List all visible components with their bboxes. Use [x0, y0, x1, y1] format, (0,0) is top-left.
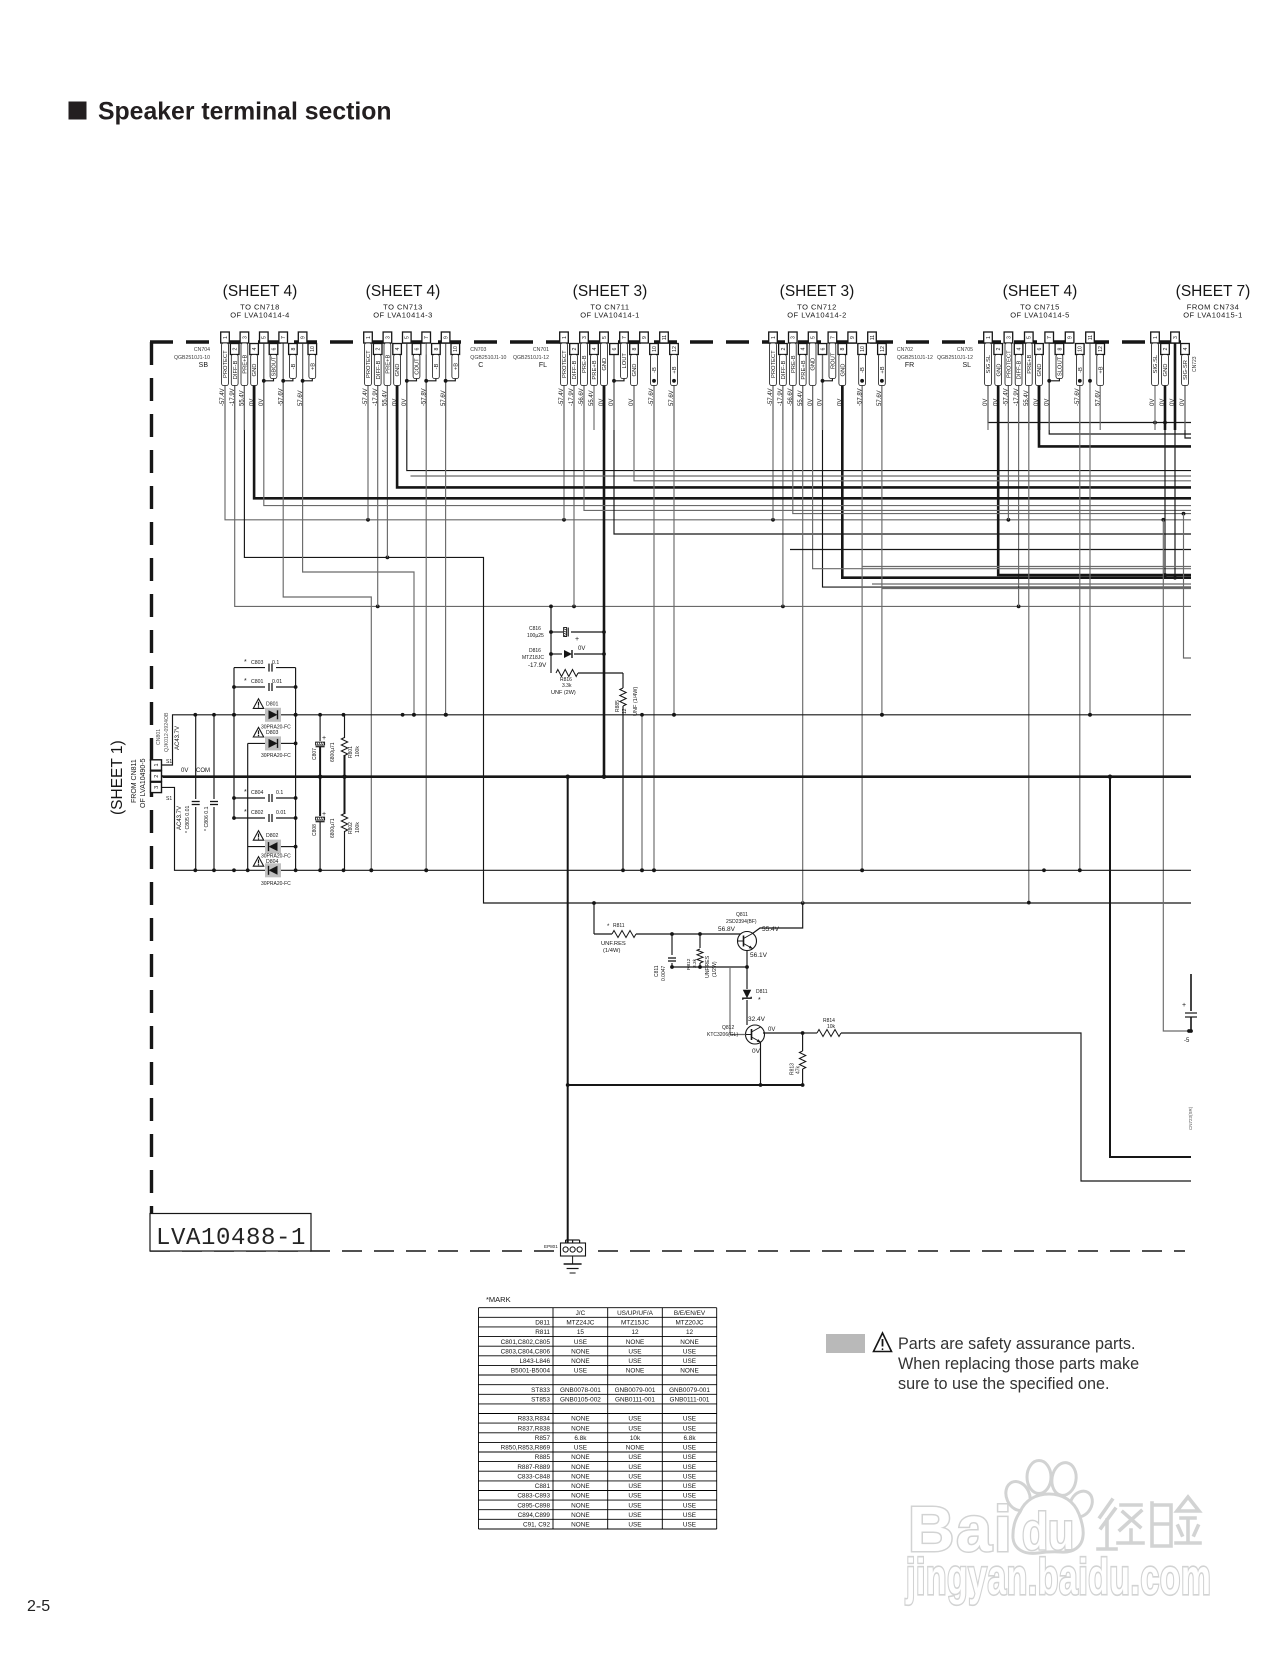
svg-text:0V: 0V	[1044, 399, 1050, 406]
svg-text:R802: R802	[348, 822, 354, 834]
svg-text:8: 8	[1057, 347, 1063, 350]
svg-text:GNB0111-001: GNB0111-001	[670, 1397, 710, 1404]
wire: PRE+B drop CN703	[386, 343, 388, 557]
svg-text:55.4V: 55.4V	[383, 390, 389, 406]
svg-text:USE: USE	[628, 1493, 641, 1500]
wire: +B net CN705	[1088, 343, 1092, 717]
capacitor C816 (100u25)	[527, 626, 604, 643]
svg-text:USE: USE	[683, 1473, 696, 1480]
svg-text:0.0047: 0.0047	[661, 965, 667, 981]
junction dots CN705 flags	[1078, 379, 1092, 383]
wire: base feed line	[594, 903, 612, 934]
wire: PROTECT drop at x=1008	[1007, 332, 1009, 520]
wire: PRE+B net CN704/CN703	[244, 343, 1191, 905]
svg-text:NONE: NONE	[571, 1454, 589, 1461]
svg-text:0V: 0V	[993, 399, 999, 406]
svg-text:SLOUT: SLOUT	[1058, 356, 1064, 376]
svg-text:OF LVA10414-1: OF LVA10414-1	[580, 311, 640, 320]
wire: DIFF-B drop at x=782	[782, 355, 784, 607]
svg-text:0V: 0V	[808, 399, 814, 406]
wire: +B net CN701	[672, 355, 676, 717]
svg-text:12: 12	[672, 346, 678, 352]
svg-text:USE: USE	[574, 1368, 587, 1375]
svg-text:LOUT: LOUT	[622, 353, 628, 369]
wire: R814 output line	[763, 1031, 817, 1035]
node CN7xx right edge label	[1188, 1106, 1193, 1130]
svg-text:NONE: NONE	[680, 1339, 698, 1346]
svg-text:R833,R834: R833,R834	[518, 1416, 551, 1423]
svg-text:FROM CN811: FROM CN811	[131, 759, 138, 803]
svg-text:1: 1	[771, 336, 777, 339]
svg-text:(SHEET 3): (SHEET 3)	[780, 283, 855, 300]
node: sheet reference header (SHEET 3) TO CN712	[780, 283, 855, 320]
svg-text:UNF.RES: UNF.RES	[601, 941, 626, 947]
svg-text:OF LVA10414-2: OF LVA10414-2	[787, 311, 847, 320]
wire: DIFF-B net bus	[235, 355, 1191, 609]
wire: right edge riser 1163	[1163, 520, 1191, 1033]
svg-text:-57.6V: -57.6V	[649, 388, 655, 406]
svg-text:8: 8	[840, 347, 846, 350]
wire: +B net CN702	[880, 355, 884, 717]
svg-text:3.3k: 3.3k	[562, 683, 572, 689]
svg-text:-17.9V: -17.9V	[569, 388, 575, 406]
svg-text:4: 4	[395, 347, 401, 350]
svg-text:-5: -5	[1184, 1038, 1190, 1044]
svg-text:0V: 0V	[578, 646, 585, 652]
svg-text:+: +	[322, 811, 326, 818]
page title	[69, 99, 392, 126]
svg-text:+: +	[575, 636, 579, 643]
capacitor C805 (0.01)	[185, 715, 200, 871]
diode D803 (30PRA20-FC)	[248, 727, 296, 759]
svg-text:1: 1	[366, 336, 372, 339]
wire: aux bus	[790, 549, 1191, 551]
svg-text:0V: 0V	[818, 399, 824, 406]
capacitor C801 (0.01)	[232, 678, 297, 691]
svg-text:*: *	[607, 924, 610, 930]
svg-text:MTZ15JC: MTZ15JC	[621, 1320, 649, 1327]
svg-text:0V: 0V	[752, 1048, 761, 1055]
svg-text:GND: GND	[996, 364, 1002, 377]
svg-text:L843-L846: L843-L846	[519, 1358, 550, 1365]
capacitor C807 (6800uF)	[312, 715, 336, 777]
wire: PROTECT drop at x=773	[772, 343, 774, 520]
svg-text:GND: GND	[252, 364, 258, 377]
wire: ROUT net CN702	[823, 343, 1192, 587]
svg-text:GNB0078-001: GNB0078-001	[560, 1387, 601, 1394]
svg-text:6: 6	[1037, 347, 1043, 350]
capacitor C802 (0.01)	[234, 809, 296, 822]
svg-text:C803,C804,C806: C803,C804,C806	[501, 1348, 551, 1355]
svg-text:(SHEET 4): (SHEET 4)	[366, 283, 441, 300]
svg-text:C816: C816	[529, 626, 541, 632]
capacitor C8xx (right edge, cut)	[1182, 974, 1197, 1044]
svg-text:6: 6	[820, 347, 826, 350]
svg-text:GNB0105-002: GNB0105-002	[560, 1397, 601, 1404]
diode D801 (30PRA20-FC)	[253, 699, 291, 731]
svg-text:55.4V: 55.4V	[798, 390, 804, 406]
node: sheet reference header (SHEET 4) TO CN713	[366, 283, 441, 320]
diode D811 (zener)	[743, 967, 768, 1025]
capacitor C811 (0.0047)	[654, 934, 676, 981]
svg-text:55.4V: 55.4V	[589, 390, 595, 406]
svg-text:R850,R853,R869: R850,R853,R869	[501, 1445, 551, 1452]
svg-text:J/C: J/C	[576, 1310, 586, 1317]
svg-text:B/E/EN/EV: B/E/EN/EV	[674, 1310, 706, 1317]
svg-text:(1/4W): (1/4W)	[603, 948, 620, 954]
svg-text:NONE: NONE	[571, 1512, 589, 1519]
svg-text:-17.9V: -17.9V	[1014, 388, 1020, 406]
svg-text:sure to use the specified one.: sure to use the specified one.	[898, 1375, 1109, 1393]
svg-text:COM: COM	[196, 768, 210, 774]
svg-text:0V: 0V	[1180, 399, 1186, 406]
svg-text:(SHEET 4): (SHEET 4)	[1003, 283, 1078, 300]
svg-text:PRE+B: PRE+B	[1027, 354, 1033, 373]
svg-text:10: 10	[652, 346, 658, 352]
svg-text:SBOUT: SBOUT	[272, 356, 278, 376]
connector CN705 (SL) pins 1-12	[937, 332, 1105, 430]
svg-text:PRE+B: PRE+B	[592, 360, 598, 379]
svg-text:D801: D801	[266, 701, 279, 707]
wire: -B net CN704	[283, 343, 373, 872]
svg-text:FR: FR	[905, 362, 914, 369]
wire: 0V COM feed pin2	[162, 768, 211, 777]
svg-text:8: 8	[632, 347, 638, 350]
wire: +B net CN703	[444, 343, 448, 717]
wire: bridge node verticals	[232, 668, 297, 871]
svg-text:57.6V: 57.6V	[441, 390, 447, 406]
wire: DIFF-B drop at x=377	[377, 355, 379, 607]
svg-text:57.6V: 57.6V	[298, 390, 304, 406]
svg-text:PROTECT: PROTECT	[366, 350, 372, 378]
svg-text:ST853: ST853	[531, 1397, 550, 1404]
transistor Q812 (KTC3206)	[707, 967, 775, 1085]
wire: GND drops CN723 pin3	[1173, 343, 1177, 580]
svg-text:-57.4V: -57.4V	[559, 388, 565, 406]
svg-text:USE: USE	[683, 1512, 696, 1519]
wire: LOUT net CN701	[614, 343, 1191, 534]
svg-text:SL: SL	[962, 362, 971, 369]
svg-text:2: 2	[154, 775, 160, 778]
wire: -17.9V branch riser	[549, 606, 553, 673]
connector CN703 (C) pins 1-10	[363, 332, 506, 430]
capacitor C808 (6800uF)	[312, 777, 336, 871]
svg-text:DIFF-B: DIFF-B	[1017, 361, 1023, 380]
svg-text:+B: +B	[1098, 366, 1104, 373]
svg-text:C881: C881	[535, 1483, 551, 1490]
wire: PROTECT drop at x=368	[367, 343, 369, 520]
svg-text:R811: R811	[535, 1329, 550, 1336]
svg-text:When replacing those parts mak: When replacing those parts make	[898, 1355, 1139, 1373]
svg-text:-57.4V: -57.4V	[768, 388, 774, 406]
svg-text:D802: D802	[266, 833, 279, 839]
svg-text:2: 2	[781, 347, 787, 350]
node: FROM CN811 OF LVA10490-5	[131, 758, 147, 808]
svg-text:7: 7	[1047, 336, 1053, 339]
wire: aux gray pair a	[862, 566, 1191, 568]
svg-text:USE: USE	[683, 1502, 696, 1509]
svg-text:CN703: CN703	[470, 347, 486, 353]
wire: DIFF-B drop at x=574	[573, 355, 575, 607]
svg-text:Parts are safety assurance par: Parts are safety assurance parts.	[898, 1335, 1136, 1353]
svg-text:0V: 0V	[249, 399, 255, 406]
svg-text:CN702: CN702	[897, 347, 913, 353]
svg-text:32.4V: 32.4V	[748, 1016, 766, 1023]
svg-text:USE: USE	[683, 1358, 696, 1365]
svg-text:30PRA20-FC: 30PRA20-FC	[261, 881, 291, 887]
connector CN704 (SB) pins 1-10	[174, 332, 317, 430]
wire: -B net CN701	[652, 355, 656, 873]
svg-text:S1: S1	[166, 759, 172, 765]
svg-text:D811: D811	[756, 989, 768, 995]
wire: +B net CN704	[303, 343, 416, 717]
wire: GND bus CN705 pin2 (0V)	[998, 355, 1191, 576]
wire: SIG.SL net CN705/CN723	[988, 343, 1191, 424]
svg-text:5: 5	[811, 336, 817, 339]
svg-text:(SHEET 1): (SHEET 1)	[109, 740, 126, 815]
svg-text:1: 1	[986, 336, 992, 339]
svg-text:7: 7	[622, 336, 628, 339]
svg-text:-57.6V: -57.6V	[1075, 388, 1081, 406]
svg-text:11: 11	[1088, 335, 1094, 340]
svg-text:10: 10	[310, 346, 316, 352]
svg-text:0V: 0V	[402, 399, 408, 406]
svg-text:C807: C807	[312, 748, 318, 760]
svg-text:PRE+B: PRE+B	[386, 354, 392, 373]
svg-text:56.1V: 56.1V	[750, 952, 768, 959]
svg-text:+: +	[1182, 1002, 1186, 1009]
svg-text:MTZ24JC: MTZ24JC	[566, 1320, 594, 1327]
svg-text:6.8k: 6.8k	[574, 1435, 587, 1442]
wire: GND bus CN705 pin6 (0V)	[1039, 355, 1191, 447]
wire: -B net CN703	[424, 355, 428, 873]
svg-text:(SHEET 4): (SHEET 4)	[223, 283, 298, 300]
wire: GND net CN701 pin8	[634, 355, 1191, 481]
wire: right edge riser 1183	[1184, 514, 1192, 658]
svg-text:D816: D816	[529, 648, 541, 654]
svg-text:5: 5	[405, 336, 411, 339]
svg-text:0V: 0V	[1150, 399, 1156, 406]
svg-text:4: 4	[1183, 347, 1189, 350]
wire: AC43.7V feed pin3	[162, 787, 191, 870]
svg-text:CN723(SR): CN723(SR)	[1188, 1106, 1193, 1130]
svg-text:PROTECT: PROTECT	[562, 350, 568, 378]
svg-text:R801: R801	[348, 746, 354, 758]
svg-text:5: 5	[602, 336, 608, 339]
resistor R811 (UNF.RES 1/4W)	[601, 923, 744, 954]
svg-text:4: 4	[592, 347, 598, 350]
svg-text:12: 12	[631, 1329, 639, 1336]
svg-text:C: C	[478, 362, 483, 369]
svg-text:NONE: NONE	[571, 1358, 589, 1365]
wire: 0V COM rail	[163, 775, 1191, 779]
svg-text:LVA10488-1: LVA10488-1	[156, 1225, 306, 1252]
svg-text:47k: 47k	[796, 1065, 802, 1074]
svg-text:2: 2	[572, 347, 578, 350]
capacitor C806 (0.1)	[204, 715, 218, 871]
wire: COUT net CN703	[407, 332, 1191, 471]
svg-text:GND: GND	[1037, 364, 1043, 377]
wire: PROTECT net bus	[225, 343, 1191, 522]
connector CN723 pins 1-4	[1150, 332, 1189, 430]
wire: PRE+B net CN702 to base bus	[802, 355, 804, 904]
node CN723 label	[1192, 356, 1198, 372]
svg-text:2SD2394(BF): 2SD2394(BF)	[726, 919, 757, 925]
svg-text:-17.9V: -17.9V	[778, 388, 784, 406]
svg-text:*: *	[758, 997, 761, 1004]
svg-text:-57.4V: -57.4V	[1004, 388, 1010, 406]
page number 2-5	[27, 1598, 50, 1615]
wire: aux gray pair b	[872, 583, 1191, 585]
svg-text:QGB2510J1-12: QGB2510J1-12	[937, 355, 973, 361]
svg-text:5: 5	[1027, 336, 1033, 339]
svg-text:NONE: NONE	[571, 1502, 589, 1509]
svg-text:11: 11	[870, 335, 876, 340]
svg-text:-B: -B	[1078, 367, 1084, 373]
svg-text:USE: USE	[628, 1473, 641, 1480]
svg-text:56.8V: 56.8V	[718, 926, 736, 933]
capacitor C803 (0.1)	[234, 659, 296, 672]
wire: COUT aux CN703	[411, 475, 1192, 477]
connector CN801 pins 1-3	[151, 712, 173, 802]
svg-text:NONE: NONE	[571, 1473, 589, 1480]
svg-text:2: 2	[376, 347, 382, 350]
wire: PRE+B net CN705	[1027, 343, 1031, 904]
wire: GND bus CN704 (0V)	[254, 355, 1191, 499]
svg-text:*: *	[244, 659, 247, 666]
svg-text:3: 3	[242, 336, 248, 339]
resistor R816 (3.3k UNF 2W)	[551, 654, 623, 696]
svg-text:+B: +B	[310, 363, 316, 370]
svg-text:* C805 0.01: * C805 0.01	[185, 805, 191, 833]
svg-text:USE: USE	[683, 1483, 696, 1490]
svg-text:GND: GND	[395, 364, 401, 377]
svg-text:PRE-B: PRE-B	[791, 355, 797, 373]
svg-text:-17.9V: -17.9V	[528, 662, 547, 669]
svg-text:NONE: NONE	[626, 1339, 644, 1346]
svg-text:USE: USE	[628, 1483, 641, 1490]
svg-text:NONE: NONE	[626, 1445, 644, 1452]
connector CN701 (FL) pins 1-12	[513, 332, 678, 430]
svg-text:GND: GND	[811, 358, 817, 371]
svg-text:2: 2	[1163, 347, 1169, 350]
wire: anon wire 642	[640, 713, 644, 872]
svg-text:C803: C803	[251, 660, 264, 666]
svg-text:EP801: EP801	[544, 1244, 558, 1249]
ground symbol	[564, 1256, 582, 1273]
svg-text:12: 12	[622, 708, 628, 714]
wire: PROTECT drop at x=564	[563, 343, 565, 520]
svg-text:D803: D803	[266, 730, 279, 736]
svg-text:0V: 0V	[1034, 399, 1040, 406]
svg-text:NONE: NONE	[571, 1522, 589, 1529]
node: board name LVA10488-1	[150, 1214, 311, 1253]
svg-text:-57.8V: -57.8V	[421, 388, 427, 406]
wire: DIFF-B drop at x=1018	[1018, 355, 1020, 607]
svg-text:3: 3	[582, 336, 588, 339]
svg-text:USE: USE	[628, 1454, 641, 1461]
svg-text:1: 1	[562, 336, 568, 339]
svg-text:GND: GND	[602, 358, 608, 371]
svg-text:GNB0079-001: GNB0079-001	[669, 1387, 710, 1394]
svg-text:10: 10	[1078, 346, 1084, 352]
wire: GND net CN702 pin5	[813, 332, 1191, 569]
svg-text:6: 6	[271, 347, 277, 350]
svg-text:9: 9	[642, 336, 648, 339]
svg-text:USE: USE	[628, 1425, 641, 1432]
svg-text:CN705: CN705	[957, 347, 973, 353]
svg-text:QJK012-0924OB: QJK012-0924OB	[164, 712, 170, 752]
svg-text:OF LVA10490-5: OF LVA10490-5	[140, 758, 147, 808]
svg-text:-57.4V: -57.4V	[363, 388, 369, 406]
svg-text:PROTECT: PROTECT	[223, 350, 229, 378]
svg-text:GNB0111-001: GNB0111-001	[615, 1397, 655, 1404]
svg-text:CN723: CN723	[1192, 356, 1198, 372]
svg-text:QGB2510J1-10: QGB2510J1-10	[470, 355, 506, 361]
svg-text:1: 1	[154, 763, 160, 766]
svg-text:0V: 0V	[1160, 399, 1166, 406]
svg-text:+: +	[322, 735, 326, 742]
svg-text:4: 4	[252, 347, 258, 350]
svg-text:OF LVA10414-4: OF LVA10414-4	[230, 311, 290, 320]
svg-text:MTZ18JC: MTZ18JC	[522, 655, 544, 661]
svg-text:Q812: Q812	[722, 1025, 734, 1031]
svg-text:(SHEET 7): (SHEET 7)	[1176, 283, 1251, 300]
svg-text:6: 6	[414, 347, 420, 350]
svg-text:8: 8	[291, 347, 297, 350]
svg-text:PRE+B: PRE+B	[801, 360, 807, 379]
svg-text:GND: GND	[632, 364, 638, 377]
svg-text:QGB2510J1-10: QGB2510J1-10	[174, 355, 210, 361]
wire: GND bus CN702 (0V)	[842, 355, 1191, 578]
svg-text:Speaker terminal section: Speaker terminal section	[98, 99, 392, 126]
svg-text:57.6V: 57.6V	[877, 390, 883, 406]
svg-text:-B: -B	[652, 367, 658, 373]
svg-text:C883-C893: C883-C893	[517, 1493, 550, 1500]
node EP801 earth terminal	[544, 1240, 586, 1256]
svg-text:2: 2	[233, 347, 239, 350]
node: (SHEET 1) side title	[109, 740, 126, 815]
svg-text:4: 4	[1017, 347, 1023, 350]
svg-text:0V: 0V	[599, 399, 605, 406]
svg-text:GNB0079-001: GNB0079-001	[615, 1387, 656, 1394]
svg-text:11: 11	[662, 335, 668, 340]
svg-text:6.8k: 6.8k	[683, 1435, 696, 1442]
svg-text:C802: C802	[251, 810, 264, 816]
svg-text:USE: USE	[628, 1416, 641, 1423]
svg-text:FL: FL	[539, 362, 547, 369]
svg-text:-57.6V: -57.6V	[278, 388, 284, 406]
svg-text:OF LVA10415-1: OF LVA10415-1	[1183, 311, 1243, 320]
svg-text:USE: USE	[683, 1445, 696, 1452]
svg-text:C804: C804	[251, 790, 264, 796]
connector CN702 (FR) pins 1-12	[768, 332, 933, 430]
svg-text:USE: USE	[628, 1502, 641, 1509]
svg-text:8: 8	[434, 347, 440, 350]
svg-text:CN701: CN701	[533, 347, 549, 353]
svg-text:55.4V: 55.4V	[1024, 390, 1030, 406]
svg-text:GND: GND	[1163, 364, 1169, 377]
svg-text:*: *	[244, 678, 247, 685]
svg-text:R812: R812	[686, 958, 692, 970]
svg-text:0V: 0V	[983, 399, 989, 406]
svg-text:DIFF-B: DIFF-B	[233, 361, 239, 380]
resistor R802 (100k)	[341, 777, 361, 871]
svg-text:0V: 0V	[181, 768, 188, 774]
svg-text:-17.9V: -17.9V	[373, 388, 379, 406]
svg-text:UNF (1/4W): UNF (1/4W)	[633, 687, 639, 717]
svg-text:DIFF-B: DIFF-B	[781, 361, 787, 380]
